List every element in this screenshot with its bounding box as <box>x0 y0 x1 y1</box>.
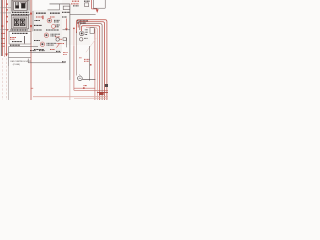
wire: gray stub crossing bus y29.6 <box>1 29 10 31</box>
wire: horizontal y=62.8 <box>28 62 65 64</box>
red labels top right of corner <box>72 0 79 2</box>
ground arrow on red vertical <box>65 28 67 30</box>
red component marks in mid-left box <box>10 37 16 39</box>
wire: pink horizontal y98.6 <box>74 98 108 100</box>
node marks on bus <box>2 3 8 30</box>
wire: left bus line 2 <box>2 0 4 56</box>
wire: left edge of FM control unit <box>8 47 10 66</box>
wire: short vertical into y62.8 <box>27 59 29 63</box>
wire: top edge over unit A <box>12 0 29 2</box>
wire: dark vertical x76.3 <box>75 32 77 76</box>
component marks right of Q2 <box>56 24 61 26</box>
wire: bundle line 5 <box>86 28 97 100</box>
transformer T3 <box>14 19 19 26</box>
wire: top horizontal <box>50 3 70 5</box>
scan tint over IF unit cluster <box>8 0 33 32</box>
FM control unit box top <box>9 57 31 59</box>
wire: vertical x89.5 <box>89 46 91 81</box>
ground arrow red (right) <box>96 9 99 13</box>
wire: verticals right of unit A <box>27 0 29 11</box>
component box right of Q5 <box>63 38 67 41</box>
wire: vertical right of red bus <box>32 11 34 31</box>
wire: red vertical x91.6 <box>91 0 93 9</box>
label row under unit A <box>12 11 29 13</box>
component marks right of Q1 <box>54 19 60 21</box>
wire: vertical pair left of unit A <box>10 0 12 12</box>
connector blob red <box>99 92 104 95</box>
label row between units <box>12 14 30 16</box>
label rows x62-70 <box>62 11 70 13</box>
wire: gray stub crossing bus y7.8 <box>1 7 12 9</box>
diode D1 (red diagonal) <box>57 43 61 48</box>
lamp PL1 <box>78 76 83 81</box>
label right of Q7 <box>84 37 88 39</box>
component box (relay) <box>90 28 94 34</box>
antenna box top right (open top) <box>93 0 105 8</box>
red labels near main vertical <box>63 52 68 54</box>
wire: horizontal y=46.6 <box>9 46 39 48</box>
component marks right of Q4 <box>47 42 57 44</box>
wire: red horizontal y8.9 <box>92 8 98 10</box>
label right of relay box <box>85 29 88 31</box>
tick above lamp <box>79 74 80 77</box>
transistor Q5 <box>56 38 59 41</box>
transistor Q3 <box>44 33 48 37</box>
svg-text:(C-906): (C-906) <box>13 64 20 66</box>
wire: long horizontal y=52.6 <box>9 52 62 54</box>
wire: left bus line 3 <box>4 0 6 57</box>
wire: bundle line 4 <box>81 26 99 100</box>
labels above y52 wire <box>30 50 36 52</box>
label row y30 <box>34 29 42 31</box>
label at end of y62.8 wire <box>62 61 66 63</box>
wire: left bus dashed continuation A <box>2 58 4 100</box>
label row y25 <box>34 24 42 26</box>
label on red bus mid <box>30 25 32 27</box>
component box top right <box>85 3 89 7</box>
wire: bundle line 2 <box>78 22 104 100</box>
wire: long pink horizontal bottom <box>33 96 108 98</box>
red label 38 <box>84 85 88 87</box>
transformer T2 <box>21 3 25 8</box>
label above wire y46 <box>10 44 20 46</box>
red mark below <box>83 87 85 89</box>
transistor Q2 <box>52 25 56 29</box>
wire: red horizontal y90.3 <box>74 89 108 91</box>
red component marks row <box>36 16 43 18</box>
label row y40 <box>34 40 40 42</box>
transistor Q4 <box>40 42 44 46</box>
wire: main long vertical x69.9 <box>69 4 71 80</box>
wire: red vertical x73.9 upper <box>73 29 75 46</box>
wire: red vertical x73.9 lower <box>73 46 75 90</box>
wire: bundle line 6 <box>94 29 96 101</box>
transistor Q1 <box>47 18 52 23</box>
red label underline <box>57 42 65 44</box>
wire: vertical from that box <box>65 38 67 47</box>
label on red bus top <box>30 13 32 15</box>
wire: red vertical with arrow <box>65 19 67 29</box>
connector blob dark <box>105 84 108 87</box>
wire: horizontal y29.8 <box>63 29 70 31</box>
ground arrow on left bus <box>5 54 8 57</box>
label row inside mid-left box <box>12 32 28 34</box>
transistor Q6 <box>79 31 84 36</box>
mid-left unit box <box>9 32 31 45</box>
component box on top wire <box>63 6 70 10</box>
capacitor mark left of Q1 <box>42 16 43 20</box>
wire: bundle line 3 <box>80 24 102 100</box>
wire: red bus vertical (right of IF units) <box>30 0 32 100</box>
dark label under red labels <box>73 5 79 7</box>
wire: red horizontal y92.4 <box>97 91 108 93</box>
wire: horizontal y9.9 <box>48 9 60 11</box>
wire: main vertical lower faded <box>69 80 71 100</box>
red mark on x89.5 wire <box>90 64 92 66</box>
label row lower in mid-left box <box>12 41 22 43</box>
label row y20.5 left <box>35 20 41 22</box>
label row under unit B <box>11 29 28 31</box>
node: red junction dot <box>73 28 75 30</box>
wire: left bus line 1 <box>0 0 2 56</box>
wire: left bus line 4 <box>6 0 8 54</box>
labels: top middle row 1 <box>36 12 46 14</box>
wire: crease diagonal <box>86 38 96 52</box>
IF unit B outer shield box <box>11 15 28 28</box>
red label rows right mid <box>84 58 90 60</box>
wire: horizontal y14.5 <box>70 14 96 16</box>
transformer T4 <box>20 19 25 26</box>
label rows x77-88 <box>77 20 88 22</box>
wire: bundle line 1 <box>77 20 107 100</box>
red stubs on bus mid <box>2 34 6 47</box>
scan tint over right text area <box>62 0 90 45</box>
wire: left bus dashed continuation B <box>6 58 8 100</box>
label top right cluster <box>84 0 90 2</box>
component marks right of Q3 <box>51 33 61 35</box>
IF unit B inner box <box>13 17 27 27</box>
IF unit A box <box>14 2 27 11</box>
transistor Q7 <box>80 38 83 41</box>
wire: vertical drop x59.4 <box>58 4 60 10</box>
wire: gray stub crossing bus y12.9 <box>1 12 12 14</box>
labels right of Q6 <box>85 31 88 33</box>
red tick on red bus bottom <box>31 87 34 89</box>
coil inside mid-left box <box>24 36 26 44</box>
red marks x79-82 <box>79 57 82 59</box>
wire: red horizontal y88.2 <box>74 87 95 89</box>
scan tint over middle component area <box>33 10 62 52</box>
wire: horizontal from lamp <box>82 78 95 80</box>
label row y49.5 <box>34 49 44 51</box>
red mark right of Q5 <box>60 38 62 40</box>
transformer T1 (tuned, with slugs) <box>16 2 19 9</box>
